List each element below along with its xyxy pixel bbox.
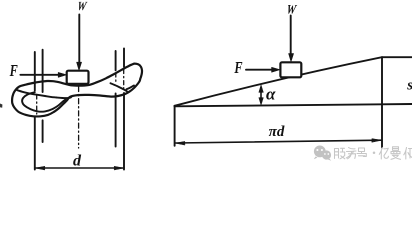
watermark: hanzi 曼 (391, 147, 401, 160)
right figure: angle alpha double arrow (260, 88, 262, 103)
watermark: hanzi 亿 (379, 148, 388, 160)
right figure: force arrow F (head) (272, 67, 280, 72)
left figure: force arrow F (shaft) (20, 74, 59, 76)
left figure: screw body line left inner (42, 50, 44, 142)
svg-text:πd: πd (269, 124, 285, 140)
svg-text:W: W (76, 0, 88, 13)
right figure: load arrow W (shaft) (290, 16, 292, 56)
watermark: separator dot (373, 152, 376, 155)
right figure: apex extension line (174, 106, 176, 146)
watermark: wechat icon eyes (316, 149, 329, 155)
watermark: hanzi 号 (357, 148, 366, 157)
watermark: wechat icon big bubble (314, 146, 331, 161)
left figure: helical thread band (white ribbon, outer outline) (12, 64, 142, 117)
svg-text:s: s (406, 78, 412, 94)
left figure: load block on screw (67, 71, 89, 84)
right figure: sliding block on incline (280, 62, 301, 77)
left figure: load arrow W (shaft) (78, 15, 80, 64)
left figure: force arrow F (head) (58, 72, 66, 77)
left figure: label F (9, 62, 18, 80)
stray ink mark at left edge (0, 104, 2, 108)
left figure: thread band face divider line (left section) (17, 90, 71, 98)
svg-text:α: α (266, 85, 276, 104)
left figure: hidden line dash (right, behind band) (116, 70, 124, 91)
svg-text:F: F (9, 62, 18, 80)
left figure: hidden line dash (left, behind band) (36, 95, 38, 114)
svg-text:F: F (234, 59, 243, 77)
watermark: hanzi 务 (346, 148, 356, 159)
right figure: base line (175, 104, 412, 106)
left figure: screw body line right outer (123, 48, 125, 169)
left figure: screw body line left outer (34, 52, 36, 170)
left figure: thread band end curl line (right tip) (127, 86, 135, 90)
right figure: top extension line to right edge (382, 56, 412, 58)
left figure: screw body line right inner (115, 51, 117, 147)
right figure: label W (286, 1, 299, 16)
right figure: dimension line pi-d (with arrowheads) (176, 140, 382, 143)
svg-text:W: W (286, 1, 299, 16)
left figure: load arrow W (head) (77, 62, 82, 70)
svg-text:d: d (73, 153, 82, 170)
left figure: centerline (screw axis, dash-dot) (78, 87, 80, 149)
left figure: dimension line d (with arrowheads) (35, 167, 123, 169)
left figure: thread band end face arc (right tip inner line) (111, 83, 128, 91)
right figure: inclined plane hypotenuse (175, 57, 383, 106)
left figure: thread band end face arc (left nose inner line) (22, 92, 65, 112)
right figure: right vertical edge / extension line (381, 57, 383, 147)
right figure: force arrow F (shaft) (246, 69, 274, 71)
watermark: partial hanzi at right edge (404, 148, 412, 160)
left figure: label W (76, 0, 88, 13)
watermark: hanzi 服 (335, 148, 345, 159)
right figure: label F (234, 59, 243, 77)
right figure: load arrow W (head) (289, 54, 294, 62)
